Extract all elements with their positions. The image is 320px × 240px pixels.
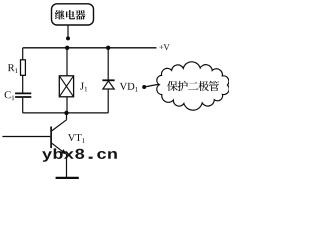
cloud callout pointer dot	[142, 85, 146, 89]
wire: R1 to C1	[22, 75, 24, 93]
capacitor C1	[15, 93, 31, 97]
resistor R1	[21, 60, 26, 76]
diode VD1 triangle	[103, 81, 114, 89]
label +V	[159, 44, 169, 50]
wire: rail down to VD1	[107, 48, 109, 80]
wire: emitter to ground	[66, 154, 68, 178]
label J1	[80, 83, 87, 92]
wire: rail down to J1	[66, 48, 68, 76]
wire: VD1 to bottom rail	[107, 89, 109, 113]
bottom rail wire	[23, 112, 109, 114]
diode VD1 cathode bar	[102, 79, 114, 81]
label C1	[5, 91, 15, 100]
transistor VT1	[51, 120, 66, 155]
junction dot: collector node	[64, 111, 68, 115]
watermark ybx8.cn	[42, 148, 117, 161]
wire: rail down to R1	[22, 48, 24, 61]
wire: J1 to bottom rail	[66, 97, 68, 113]
wire: C1 to bottom rail	[22, 98, 24, 113]
junction dot: relay branch on rail	[65, 46, 69, 50]
cloud callout pointer line	[144, 84, 160, 87]
relay coil J1 (box with X)	[59, 76, 73, 97]
label R1	[8, 64, 18, 73]
+V supply rail	[23, 47, 157, 49]
label VD1	[120, 83, 138, 92]
label VT1	[68, 134, 85, 143]
callout pointer dot	[66, 36, 70, 40]
callout bubble: relay label 继电器	[52, 4, 94, 25]
wire: transistor base input	[2, 136, 50, 138]
callout pointer line	[67, 25, 69, 36]
wire: collector vertical	[66, 113, 68, 120]
cloud callout: protection diode note 保护二极管	[157, 62, 229, 110]
junction dot: diode branch on rail	[106, 46, 110, 50]
ground	[56, 177, 79, 179]
